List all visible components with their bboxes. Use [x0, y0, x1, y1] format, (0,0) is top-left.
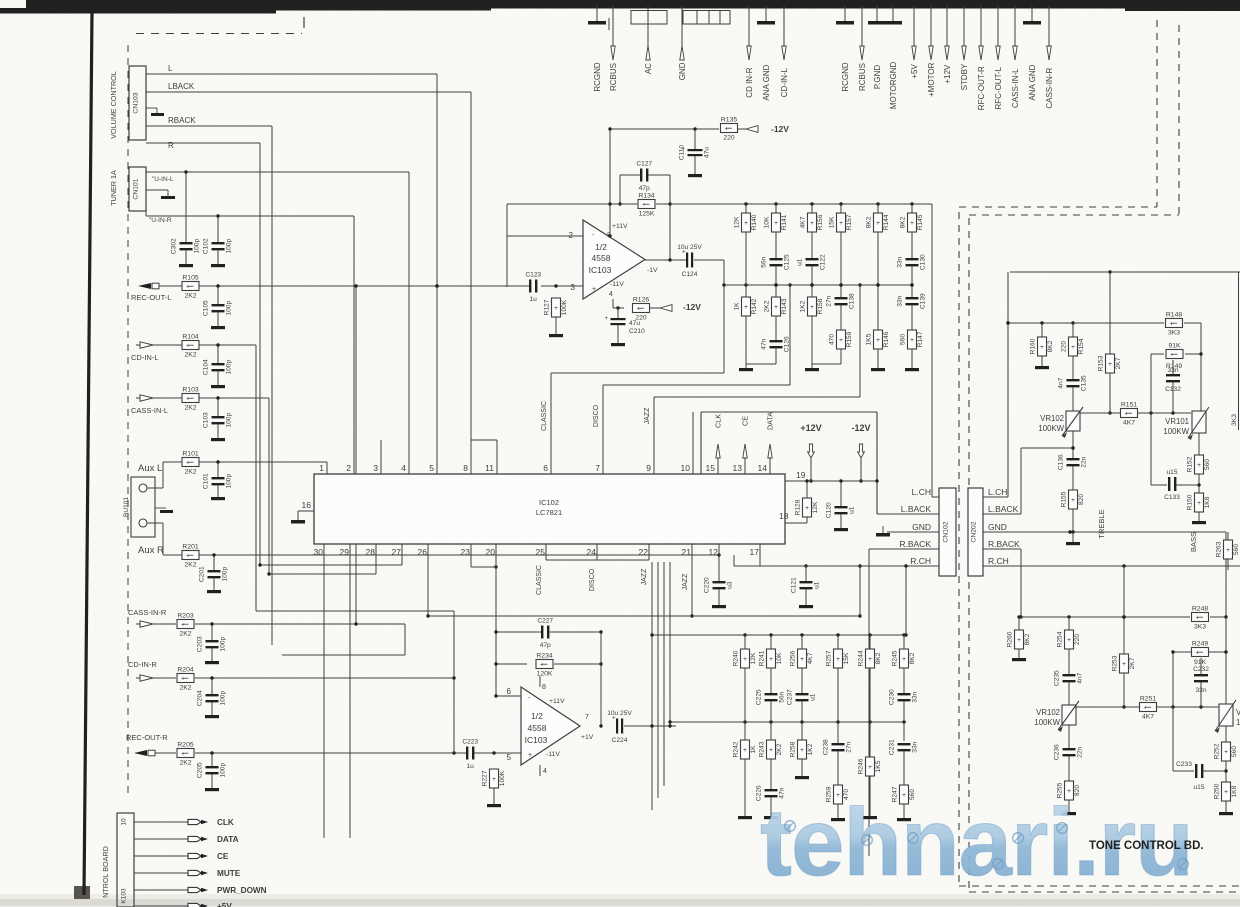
svg-text:R158: R158 — [817, 298, 824, 314]
svg-text:+: + — [592, 286, 596, 293]
svg-text:-11V: -11V — [610, 281, 624, 288]
svg-text:u1: u1 — [814, 581, 821, 589]
svg-text:R.CH: R.CH — [988, 556, 1009, 566]
svg-text:560: 560 — [1233, 544, 1240, 555]
svg-text:REC-OUT-R: REC-OUT-R — [126, 733, 168, 742]
svg-text:19: 19 — [796, 470, 806, 480]
svg-text:+: + — [1017, 637, 1021, 644]
svg-text:K103: K103 — [121, 888, 128, 904]
svg-text:33n: 33n — [1167, 367, 1178, 374]
svg-text:+: + — [744, 220, 748, 227]
svg-text:C130: C130 — [920, 254, 927, 270]
svg-text:C203: C203 — [197, 636, 204, 652]
svg-text:JAZZ: JAZZ — [641, 568, 648, 585]
svg-text:220: 220 — [1074, 634, 1081, 645]
svg-text:2K2: 2K2 — [184, 469, 196, 476]
svg-text:R147: R147 — [917, 331, 924, 347]
svg-text:C238: C238 — [823, 739, 830, 755]
svg-text:C227: C227 — [537, 618, 553, 625]
svg-text:+: + — [839, 337, 843, 344]
svg-text:10u 25V: 10u 25V — [677, 244, 702, 251]
svg-text:CD-IN-L: CD-IN-L — [780, 67, 789, 97]
svg-text:15K: 15K — [828, 216, 835, 228]
svg-text:+12V: +12V — [800, 423, 821, 433]
svg-text:BASS: BASS — [1189, 532, 1198, 552]
svg-text:R157: R157 — [846, 214, 853, 230]
svg-text:3K3: 3K3 — [1194, 624, 1206, 631]
svg-text:22n: 22n — [1077, 746, 1084, 757]
svg-text:C201: C201 — [199, 566, 206, 582]
svg-text:91K: 91K — [1194, 659, 1207, 666]
svg-text:100p: 100p — [226, 301, 233, 316]
svg-text:R144: R144 — [883, 214, 890, 230]
svg-text:V: V — [1236, 708, 1240, 717]
svg-text:2K2: 2K2 — [776, 743, 783, 755]
svg-text:C230: C230 — [889, 689, 896, 705]
svg-text:+: + — [1170, 320, 1174, 327]
svg-text:4K7: 4K7 — [1123, 420, 1135, 427]
svg-text:10: 10 — [121, 818, 128, 826]
svg-text:R234: R234 — [536, 653, 552, 660]
svg-text:R203: R203 — [177, 613, 193, 620]
svg-text:L.BACK: L.BACK — [988, 504, 1019, 514]
svg-text:+: + — [186, 552, 190, 559]
svg-text:+: + — [774, 220, 778, 227]
svg-text:R.BACK: R.BACK — [988, 539, 1020, 549]
svg-text:RCBUS: RCBUS — [609, 63, 618, 91]
svg-text:+: + — [910, 337, 914, 344]
svg-text:R153: R153 — [1097, 355, 1104, 371]
svg-text:220: 220 — [1060, 341, 1067, 352]
svg-text:22: 22 — [639, 547, 649, 557]
svg-text:+: + — [554, 305, 558, 312]
svg-text:R155: R155 — [1060, 491, 1067, 507]
svg-text:+: + — [839, 220, 843, 227]
svg-text:1: 1 — [319, 463, 324, 473]
svg-text:2K7: 2K7 — [1129, 657, 1136, 669]
svg-text:ANA GND: ANA GND — [1028, 64, 1037, 100]
svg-text:+: + — [605, 316, 609, 322]
svg-text:1K8: 1K8 — [1231, 785, 1238, 797]
svg-text:AC: AC — [644, 63, 653, 74]
svg-text:100KW: 100KW — [1034, 718, 1060, 727]
svg-text:RBACK: RBACK — [168, 116, 196, 125]
svg-text:C103: C103 — [203, 412, 210, 428]
svg-text:REC-OUT-L: REC-OUT-L — [131, 293, 171, 302]
svg-text:C124: C124 — [682, 271, 698, 278]
svg-text:C123: C123 — [525, 272, 541, 279]
svg-text:+: + — [800, 656, 804, 663]
svg-text:R201: R201 — [182, 544, 198, 551]
svg-text:+: + — [876, 337, 880, 344]
svg-text:C125: C125 — [784, 254, 791, 270]
svg-text:+12V: +12V — [943, 64, 952, 84]
svg-text:L: L — [168, 64, 173, 73]
svg-text:+: + — [868, 764, 872, 771]
svg-text:+: + — [744, 304, 748, 311]
svg-text:1K: 1K — [750, 745, 757, 754]
svg-text:TONE CONTROL BD.: TONE CONTROL BD. — [1089, 840, 1204, 852]
svg-text:1K2: 1K2 — [799, 300, 806, 312]
svg-text:IC103: IC103 — [589, 265, 612, 275]
svg-text:24: 24 — [587, 547, 597, 557]
svg-text:+: + — [642, 201, 646, 208]
svg-text:+: + — [774, 304, 778, 311]
svg-text:C224: C224 — [612, 737, 628, 744]
svg-text:R128: R128 — [794, 499, 801, 515]
svg-text:CLASSIC: CLASSIC — [541, 401, 548, 431]
svg-text:R148: R148 — [1166, 312, 1182, 319]
svg-text:2K2: 2K2 — [184, 293, 196, 300]
svg-text:12K: 12K — [750, 652, 757, 664]
svg-text:+: + — [810, 304, 814, 311]
svg-text:+: + — [1071, 344, 1075, 351]
svg-text:C210: C210 — [629, 328, 645, 335]
svg-text:8K2: 8K2 — [909, 652, 916, 664]
svg-text:27: 27 — [392, 547, 402, 557]
svg-text:R134: R134 — [638, 193, 654, 200]
svg-text:VOLUME CONTROL: VOLUME CONTROL — [109, 71, 118, 139]
svg-text:100KW: 100KW — [1163, 427, 1189, 436]
svg-text:120K: 120K — [537, 671, 553, 678]
svg-text:+: + — [186, 342, 190, 349]
svg-text:PWR_DOWN: PWR_DOWN — [217, 886, 267, 895]
svg-text:R.BACK: R.BACK — [899, 539, 931, 549]
svg-text:R160: R160 — [1029, 338, 1036, 354]
svg-text:33n: 33n — [897, 295, 904, 306]
svg-text:15: 15 — [706, 463, 716, 473]
svg-text:470: 470 — [828, 334, 835, 345]
svg-text:1u: 1u — [530, 296, 538, 303]
svg-text:-12V: -12V — [771, 124, 789, 134]
svg-text:6: 6 — [543, 463, 548, 473]
svg-text:C110: C110 — [679, 145, 686, 161]
svg-text:C105: C105 — [203, 300, 210, 316]
svg-text:3K3: 3K3 — [1231, 414, 1238, 426]
svg-text:+: + — [725, 125, 729, 132]
svg-text:8K2: 8K2 — [1047, 340, 1054, 352]
svg-text:R105: R105 — [182, 275, 198, 282]
svg-text:+: + — [528, 752, 532, 759]
svg-text:C220: C220 — [704, 577, 711, 593]
svg-text:30: 30 — [314, 547, 324, 557]
svg-text:R: R — [168, 141, 174, 150]
svg-text:2K2: 2K2 — [179, 685, 191, 692]
svg-text:-12V: -12V — [851, 423, 870, 433]
svg-text:DISCO: DISCO — [593, 404, 600, 427]
svg-text:33n: 33n — [897, 256, 904, 267]
svg-text:9: 9 — [646, 463, 651, 473]
svg-text:VR102: VR102 — [1040, 414, 1064, 423]
svg-text:u3: u3 — [727, 581, 734, 589]
svg-text:8K2: 8K2 — [875, 652, 882, 664]
svg-text:R150: R150 — [1186, 494, 1193, 510]
svg-text:MUTE: MUTE — [217, 869, 241, 878]
svg-text:R240: R240 — [732, 650, 739, 666]
svg-text:+: + — [1067, 637, 1071, 644]
svg-text:4: 4 — [543, 768, 547, 775]
svg-text:CD-IN-R: CD-IN-R — [128, 660, 157, 669]
svg-text:R248: R248 — [1192, 606, 1208, 613]
svg-text:R263: R263 — [1215, 541, 1222, 557]
svg-text:u1: u1 — [810, 693, 817, 701]
svg-text:+: + — [181, 750, 185, 757]
svg-text:33n: 33n — [912, 691, 919, 702]
svg-text:+: + — [810, 220, 814, 227]
svg-text:+: + — [868, 656, 872, 663]
svg-text:R152: R152 — [1186, 456, 1193, 472]
svg-text:+: + — [181, 621, 185, 628]
svg-text:L.CH: L.CH — [988, 487, 1007, 497]
svg-text:+: + — [1224, 789, 1228, 796]
svg-text:+: + — [1196, 649, 1200, 656]
svg-text:R101: R101 — [182, 451, 198, 458]
svg-text:u1: u1 — [797, 258, 804, 266]
svg-text:100K: 100K — [561, 299, 568, 315]
svg-text:IC103: IC103 — [525, 735, 548, 745]
svg-text:C104: C104 — [203, 359, 210, 375]
svg-text:R146: R146 — [883, 331, 890, 347]
svg-text:CE: CE — [741, 416, 750, 426]
svg-text:u15: u15 — [1193, 784, 1204, 791]
svg-text:4n7: 4n7 — [1077, 672, 1084, 683]
svg-text:C236: C236 — [1054, 744, 1061, 760]
svg-text:4: 4 — [401, 463, 406, 473]
svg-text:R241: R241 — [758, 650, 765, 666]
svg-text:820: 820 — [1078, 494, 1085, 505]
svg-text:15K: 15K — [843, 652, 850, 664]
svg-text:C127: C127 — [636, 161, 652, 168]
svg-text:DATA: DATA — [217, 835, 239, 844]
svg-text:21: 21 — [682, 547, 692, 557]
svg-text:+: + — [1224, 749, 1228, 756]
svg-text:P.GND: P.GND — [873, 65, 882, 90]
svg-text:+: + — [1226, 547, 1230, 554]
svg-text:+: + — [540, 661, 544, 668]
svg-text:100K: 100K — [499, 770, 506, 786]
svg-text:R242: R242 — [732, 741, 739, 757]
svg-text:+: + — [769, 656, 773, 663]
svg-text:+: + — [1122, 661, 1126, 668]
svg-text:220: 220 — [723, 135, 735, 142]
svg-text:17: 17 — [750, 547, 760, 557]
svg-text:3: 3 — [373, 463, 378, 473]
svg-text:6: 6 — [507, 687, 512, 696]
svg-text:1K5: 1K5 — [875, 760, 882, 772]
svg-text:C225: C225 — [756, 689, 763, 705]
svg-text:+: + — [800, 747, 804, 754]
svg-text:-12V: -12V — [683, 302, 701, 312]
svg-text:+: + — [836, 656, 840, 663]
svg-text:R254: R254 — [1056, 631, 1063, 647]
svg-text:DISCO: DISCO — [589, 568, 596, 591]
svg-text:8K2: 8K2 — [1024, 633, 1031, 645]
svg-text:R127: R127 — [543, 299, 550, 315]
svg-text:2K2: 2K2 — [763, 300, 770, 312]
svg-text:14: 14 — [758, 463, 768, 473]
svg-text:C231: C231 — [889, 739, 896, 755]
svg-text:2: 2 — [346, 463, 351, 473]
svg-text:23: 23 — [461, 547, 471, 557]
svg-text:MOTORGND: MOTORGND — [889, 61, 898, 109]
svg-text:C223: C223 — [462, 739, 478, 746]
svg-text:CLASSIC: CLASSIC — [536, 565, 543, 595]
svg-text:47p: 47p — [540, 642, 551, 649]
svg-text:JAZZ: JAZZ — [682, 573, 689, 590]
svg-text:+: + — [1108, 361, 1112, 368]
svg-text:10K: 10K — [763, 216, 770, 228]
svg-text:1/2: 1/2 — [531, 711, 543, 721]
svg-text:5: 5 — [507, 753, 512, 762]
svg-text:BU101: BU101 — [123, 497, 130, 517]
svg-text:+: + — [637, 305, 641, 312]
svg-text:CASS-IN-L: CASS-IN-L — [131, 406, 168, 415]
svg-text:RCGND: RCGND — [841, 62, 850, 92]
svg-text:RCGND: RCGND — [593, 62, 602, 92]
svg-text:1K5: 1K5 — [865, 333, 872, 345]
svg-text:DATA: DATA — [766, 412, 775, 430]
svg-text:22n: 22n — [1081, 456, 1088, 467]
svg-text:C138: C138 — [849, 293, 856, 309]
svg-text:27n: 27n — [826, 295, 833, 306]
svg-text:R243: R243 — [758, 741, 765, 757]
svg-text:2K2: 2K2 — [184, 405, 196, 412]
svg-text:56n: 56n — [779, 691, 786, 702]
svg-text:+: + — [743, 656, 747, 663]
svg-text:47p: 47p — [639, 185, 650, 192]
svg-text:-1V: -1V — [647, 267, 658, 274]
svg-text:+: + — [1170, 351, 1174, 358]
svg-text:100p: 100p — [222, 567, 229, 582]
svg-text:C136: C136 — [1058, 454, 1065, 470]
svg-text:100p: 100p — [194, 239, 201, 254]
svg-text:56n: 56n — [761, 256, 768, 267]
svg-text:R204: R204 — [177, 667, 193, 674]
svg-text:47u: 47u — [704, 147, 711, 158]
svg-text:R256: R256 — [789, 650, 796, 666]
svg-text:C120: C120 — [826, 502, 833, 518]
svg-text:Aux L: Aux L — [138, 463, 162, 474]
svg-text:NTROL BOARD: NTROL BOARD — [101, 846, 110, 898]
svg-text:+: + — [1125, 410, 1129, 417]
svg-text:+: + — [186, 395, 190, 402]
svg-text:25: 25 — [536, 547, 546, 557]
svg-text:C204: C204 — [197, 690, 204, 706]
svg-text:7: 7 — [595, 463, 600, 473]
svg-text:R.CH: R.CH — [910, 556, 931, 566]
svg-text:1K2: 1K2 — [807, 743, 814, 755]
svg-text:5: 5 — [429, 463, 434, 473]
svg-text:8K2: 8K2 — [899, 216, 906, 228]
svg-text:560: 560 — [1204, 459, 1211, 470]
svg-text:R151: R151 — [1121, 402, 1137, 409]
svg-text:"U-IN-L: "U-IN-L — [152, 176, 174, 183]
svg-text:R258: R258 — [789, 741, 796, 757]
svg-text:R140: R140 — [751, 214, 758, 230]
svg-text:C135: C135 — [1081, 375, 1088, 391]
svg-text:R145: R145 — [917, 214, 924, 230]
svg-text:+5V: +5V — [910, 64, 919, 79]
svg-text:LBACK: LBACK — [168, 82, 195, 91]
svg-text:VR102: VR102 — [1036, 708, 1060, 717]
svg-text:R141: R141 — [781, 214, 788, 230]
svg-text:47u: 47u — [629, 320, 640, 327]
svg-text:16: 16 — [302, 500, 312, 510]
svg-text:8: 8 — [542, 684, 546, 691]
svg-text:+: + — [186, 459, 190, 466]
svg-text:C233: C233 — [1176, 761, 1192, 768]
svg-text:CE: CE — [217, 852, 229, 861]
svg-text:C101: C101 — [203, 473, 210, 489]
svg-text:4n7: 4n7 — [1058, 377, 1065, 388]
svg-text:Aux R: Aux R — [138, 545, 164, 556]
svg-text:47n: 47n — [761, 338, 768, 349]
svg-text:C205: C205 — [197, 762, 204, 778]
svg-text:+1V: +1V — [581, 734, 594, 741]
svg-text:+MOTOR: +MOTOR — [927, 62, 936, 97]
svg-text:13: 13 — [733, 463, 743, 473]
svg-text:10u 25V: 10u 25V — [607, 710, 632, 717]
svg-text:R154: R154 — [1078, 338, 1085, 354]
svg-text:R257: R257 — [825, 650, 832, 666]
svg-text:10K: 10K — [776, 652, 783, 664]
svg-text:100p: 100p — [226, 413, 233, 428]
svg-text:CLK: CLK — [217, 818, 234, 827]
svg-text:L.CH: L.CH — [912, 487, 931, 497]
svg-text:-11V: -11V — [546, 751, 560, 758]
svg-text:+5V: +5V — [217, 902, 232, 907]
svg-text:C126: C126 — [784, 336, 791, 352]
svg-text:CN102: CN102 — [943, 521, 950, 542]
svg-text:GND: GND — [678, 62, 687, 80]
svg-text:11: 11 — [485, 463, 494, 473]
svg-text:100p: 100p — [220, 637, 227, 652]
svg-text:3K3: 3K3 — [1168, 330, 1180, 337]
svg-text:+: + — [910, 220, 914, 227]
svg-text:LC7821: LC7821 — [536, 508, 562, 517]
svg-text:4K7: 4K7 — [807, 652, 814, 664]
svg-text:+: + — [769, 747, 773, 754]
svg-text:CASS-IN-L: CASS-IN-L — [1011, 68, 1020, 108]
svg-text:+: + — [1197, 462, 1201, 469]
svg-text:R246: R246 — [857, 758, 864, 774]
svg-text:R135: R135 — [721, 117, 737, 124]
svg-text:R252: R252 — [1213, 743, 1220, 759]
svg-text:R159: R159 — [846, 331, 853, 347]
svg-text:STDBY: STDBY — [960, 63, 969, 90]
svg-text:R103: R103 — [182, 387, 198, 394]
svg-text:18: 18 — [779, 511, 789, 521]
svg-text:12K: 12K — [812, 501, 819, 513]
svg-text:+: + — [805, 505, 809, 512]
svg-text:560: 560 — [899, 334, 906, 345]
svg-text:CN103: CN103 — [133, 92, 140, 113]
svg-text:2K2: 2K2 — [184, 352, 196, 359]
svg-text:L.BACK: L.BACK — [901, 504, 932, 514]
svg-text:C133: C133 — [1164, 494, 1180, 501]
svg-text:1K: 1K — [733, 302, 740, 311]
svg-text:100p: 100p — [220, 691, 227, 706]
svg-text:TUNER 1A: TUNER 1A — [109, 170, 118, 206]
svg-text:4K7: 4K7 — [799, 216, 806, 228]
svg-text:TREBLE: TREBLE — [1097, 509, 1106, 538]
svg-text:R142: R142 — [751, 298, 758, 314]
svg-text:1: 1 — [1236, 718, 1240, 727]
svg-text:+11V: +11V — [549, 698, 565, 705]
svg-text:IC102: IC102 — [539, 498, 559, 507]
svg-text:2K7: 2K7 — [1115, 357, 1122, 369]
svg-text:R260: R260 — [1006, 631, 1013, 647]
